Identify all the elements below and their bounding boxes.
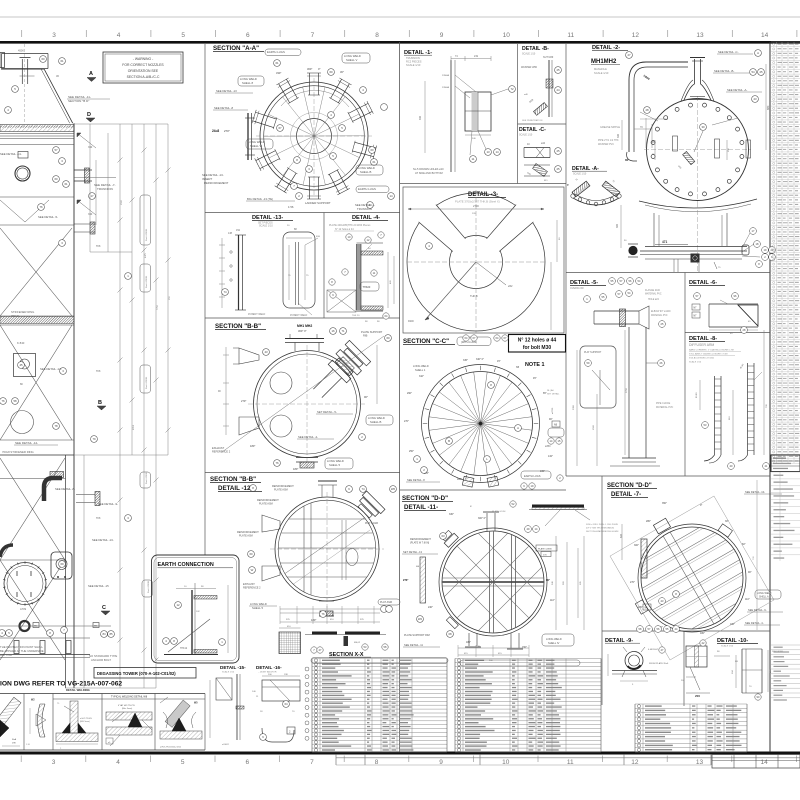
svg-text:DETAIL -C-: DETAIL -C- (519, 127, 546, 133)
section A-A leader notes (202, 49, 389, 211)
typical welding details table (0, 694, 205, 751)
section B-B bottom stub (293, 458, 318, 472)
svg-text:WASHER W60: WASHER W60 (521, 66, 538, 69)
svg-text:SEE DETAIL -C-: SEE DETAIL -C- (718, 50, 739, 54)
svg-text:TK8: TK8 (96, 370, 101, 373)
detail 11 rim stubs (420, 512, 523, 649)
svg-text:DETAIL -11-: DETAIL -11- (404, 504, 438, 511)
svg-text:7: 7 (310, 759, 314, 766)
svg-text:60: 60 (370, 148, 374, 152)
sheet outer edge line (0, 16, 800, 18)
svg-text:SECTION A WAX SPACING 600MM: SECTION A WAX SPACING 600MM (586, 530, 619, 533)
svg-text:11: 11 (567, 32, 574, 39)
svg-text:DETAIL -12-: DETAIL -12- (218, 485, 253, 492)
svg-text:270°: 270° (630, 581, 635, 584)
svg-text:58: 58 (13, 399, 17, 403)
svg-text:45 BENT WELD: 45 BENT WELD (248, 313, 266, 316)
svg-text:3: 3 (52, 32, 56, 39)
svg-text:76: 76 (321, 612, 325, 616)
detail 7 tray circle rotated (618, 504, 766, 652)
svg-text:14: 14 (389, 194, 393, 198)
vessel top head and nozzles (0, 44, 48, 124)
detail 1 title (404, 50, 432, 67)
svg-text:69: 69 (60, 562, 64, 566)
svg-text:4500: 4500 (18, 49, 24, 53)
svg-text:160°: 160° (730, 623, 735, 626)
svg-text:REINFORCEMENT: REINFORCEMENT (204, 181, 229, 185)
svg-text:SIDE x DRILL WITH 4 .1500 PLAT: SIDE x DRILL WITH 4 .1500 PLATE (586, 523, 619, 526)
svg-text:SEE DETAIL -11: SEE DETAIL -11 (404, 643, 424, 647)
right strip tag block (771, 455, 800, 472)
manhole dims and notes (598, 50, 770, 171)
svg-text:ORIENTATION SEE: ORIENTATION SEE (128, 69, 159, 73)
svg-text:STCL ARM 2" DIA ENCLOSURE 17.5: STCL ARM 2" DIA ENCLOSURE 17.5M (689, 353, 728, 356)
svg-text:SEE DETAIL -9-: SEE DETAIL -9- (748, 608, 767, 612)
svg-text:80: 80 (625, 158, 629, 162)
svg-text:4475: 4475 (145, 252, 147, 258)
svg-text:9: 9 (440, 32, 444, 39)
svg-text:BIG DETAIL -13 (TE): BIG DETAIL -13 (TE) (247, 197, 273, 201)
anchor bolt detail ring (0, 621, 111, 631)
svg-text:08: 08 (448, 632, 452, 636)
svg-text:880: 880 (766, 105, 770, 110)
svg-text:SHELL 5: SHELL 5 (252, 606, 264, 610)
detail 13 part left (219, 229, 266, 316)
svg-text:PLATE SUPPORT: PLATE SUPPORT (361, 330, 383, 334)
svg-text:6: 6 (246, 32, 250, 39)
svg-text:SHELL 5: SHELL 5 (329, 463, 341, 467)
detail 12 balloons and notes (237, 485, 400, 618)
svg-text:6: 6 (245, 759, 249, 766)
svg-text:61: 61 (372, 160, 376, 164)
svg-text:a HLT-TN 4N: a HLT-TN 4N (80, 718, 92, 720)
svg-text:300° 0°: 300° 0° (298, 329, 307, 333)
svg-text:SCALE 1/10: SCALE 1/10 (594, 71, 609, 75)
svg-text:700x8 STIFFENER RING: 700x8 STIFFENER RING (2, 450, 34, 454)
svg-text:ANCHOR BOLT: ANCHOR BOLT (91, 658, 111, 662)
svg-text:61: 61 (275, 61, 279, 65)
svg-text:78: 78 (54, 424, 58, 428)
svg-text:330°: 330° (449, 513, 454, 516)
bottom fold marks and title strip (336, 755, 800, 769)
manhole neck side view (654, 203, 727, 272)
svg-text:340° 0°: 340° 0° (476, 358, 484, 361)
skirt pipe elbow upper (44, 472, 64, 502)
svg-text:(Min. 5mm): (Min. 5mm) (122, 708, 132, 710)
svg-text:4.0833.H7: 4.0833.H7 (648, 649, 659, 651)
svg-text:W2: W2 (418, 617, 423, 621)
svg-text:330°: 330° (276, 71, 281, 75)
svg-text:SECTION "D-D": SECTION "D-D" (402, 495, 448, 502)
svg-text:SEE DETAIL -15: SEE DETAIL -15 (88, 584, 109, 588)
svg-text:MATERIAL PVC: MATERIAL PVC (645, 293, 662, 296)
svg-text:240°: 240° (428, 606, 433, 609)
stiffener ring labels (2, 310, 58, 454)
svg-text:C: C (102, 605, 106, 611)
skirt manway rounded square (51, 552, 72, 579)
svg-text:290°: 290° (407, 392, 412, 395)
svg-text:(MIL 5mm): (MIL 5mm) (80, 721, 90, 723)
svg-text:1500: 1500 (121, 199, 123, 205)
svg-text:219: 219 (474, 55, 479, 58)
svg-text:SEE DETAIL -12-: SEE DETAIL -12- (40, 367, 62, 371)
svg-text:SEE DETAIL -9-: SEE DETAIL -9- (98, 502, 118, 506)
svg-text:EARTH LUGS: EARTH LUGS (358, 187, 376, 191)
svg-text:132°: 132° (548, 455, 553, 458)
svg-text:MH1 MH2: MH1 MH2 (297, 324, 312, 328)
svg-text:345°: 345° (463, 359, 468, 362)
vessel cone section (1, 69, 73, 123)
svg-text:BOTTOM: BOTTOM (0, 653, 13, 657)
svg-text:SEE DETAIL -14-: SEE DETAIL -14- (0, 152, 22, 156)
svg-text:76: 76 (39, 205, 43, 209)
section C-C rim stubs (462, 476, 498, 487)
section A-A flange rings (256, 78, 372, 196)
section D-D detail 7 titles (607, 483, 657, 498)
view arrows A D B C (86, 71, 110, 615)
svg-text:SET DETAIL -5-: SET DETAIL -5- (317, 410, 337, 414)
svg-text:MH1MH2: MH1MH2 (591, 59, 617, 65)
svg-text:471: 471 (662, 240, 668, 244)
svg-text:SECTION "A-A": SECTION "A-A" (213, 45, 259, 52)
weld detail cell 2 (26, 699, 46, 747)
svg-text:11: 11 (472, 157, 475, 161)
svg-text:230°: 230° (638, 606, 643, 609)
vessel cross bracing X upper (0, 228, 72, 440)
svg-text:RxA: RxA (12, 738, 17, 741)
svg-text:SEE DETAIL -12-: SEE DETAIL -12- (15, 441, 38, 445)
svg-text:SCALE 1/10: SCALE 1/10 (259, 225, 273, 228)
detail 11 bottom dims (403, 634, 574, 662)
svg-text:13: 13 (696, 32, 704, 39)
manhole hinge slots (673, 136, 720, 158)
svg-text:OVERFLOW: OVERFLOW (570, 287, 584, 290)
detail A hinge drawing (567, 178, 621, 206)
weld detail cell 5 (160, 697, 202, 749)
svg-text:152: 152 (236, 229, 241, 232)
svg-text:B: B (448, 439, 450, 443)
detail 12 top stub (318, 481, 337, 497)
svg-text:DETAIL -16-: DETAIL -16- (256, 665, 282, 670)
svg-text:SECTION "C-C": SECTION "C-C" (403, 338, 449, 345)
section A-A ladder bar left (245, 113, 255, 160)
svg-text:LONG WELD: LONG WELD (546, 637, 562, 641)
base anchor bolt ring circle (3, 561, 47, 611)
svg-text:SEE DETAIL -13-: SEE DETAIL -13- (92, 538, 114, 542)
svg-text:PIPE 2"X1 1/2 THK: PIPE 2"X1 1/2 THK (598, 139, 619, 142)
svg-text:12: 12 (632, 32, 640, 39)
earth connection box (152, 555, 240, 663)
svg-text:60: 60 (41, 57, 45, 61)
svg-text:45 BENT WELD: 45 BENT WELD (290, 314, 308, 317)
svg-text:57: 57 (54, 148, 58, 152)
svg-text:SHELL IV: SHELL IV (548, 641, 560, 645)
shell smile arc under manhole (639, 199, 757, 212)
detail 3 title (455, 192, 506, 204)
svg-text:4"LAT HLT-TN 4"N: 4"LAT HLT-TN 4"N (118, 704, 135, 707)
svg-text:85: 85 (109, 632, 113, 636)
bottom border thick line (0, 752, 800, 755)
section A-A radial lines (314, 87, 325, 136)
top border thick line (0, 41, 800, 44)
svg-text:29K: 29K (12, 743, 16, 745)
svg-text:23: 23 (753, 97, 757, 101)
vessel manhole elevation (15, 166, 30, 181)
detail B bolt drawing (522, 60, 561, 122)
svg-text:28: 28 (645, 108, 649, 112)
svg-text:NUT M39: NUT M39 (543, 56, 554, 59)
detail 12 shell circle (270, 492, 384, 608)
svg-text:PLATE ASM: PLATE ASM (259, 503, 273, 506)
section B-B shell circle (248, 345, 366, 468)
skirt access box with circle (14, 354, 36, 387)
svg-text:K 840: K 840 (17, 341, 25, 345)
skirt dashed opening circle (11, 411, 34, 434)
svg-text:3300: 3300 (573, 404, 575, 410)
svg-text:4: 4 (117, 32, 121, 39)
svg-text:SCALE 1/10: SCALE 1/10 (406, 63, 421, 67)
svg-text:SEE DETAIL -A-: SEE DETAIL -A- (727, 88, 747, 92)
svg-text:MANHOLE: MANHOLE (594, 67, 607, 71)
vessel side nozzle stub (74, 168, 116, 183)
svg-text:74: 74 (223, 290, 227, 294)
svg-text:PLATE SUPPORT RIM: PLATE SUPPORT RIM (404, 634, 430, 637)
svg-text:SET DETAIL: SET DETAIL (547, 393, 560, 396)
weld detail cell 4 (106, 704, 152, 746)
svg-text:25: 25 (556, 149, 560, 153)
svg-text:7: 7 (311, 32, 315, 39)
svg-text:SCALE 1/10: SCALE 1/10 (573, 173, 587, 176)
svg-text:180°: 180° (311, 618, 316, 622)
svg-text:300°: 300° (634, 544, 639, 547)
svg-text:DIFFUSER ARM: DIFFUSER ARM (689, 343, 714, 347)
svg-text:Dwt # 28661: Dwt # 28661 (145, 376, 148, 389)
svg-text:0°: 0° (700, 504, 702, 507)
svg-text:SCALE 1/10: SCALE 1/10 (721, 645, 734, 648)
svg-text:14: 14 (760, 759, 768, 766)
weld detail cell 3 (56, 701, 98, 750)
svg-text:PLATE ASM: PLATE ASM (239, 535, 253, 538)
note box holes for bolt (509, 335, 566, 353)
svg-text:54: 54 (751, 70, 755, 74)
packing sample hatch square (279, 626, 301, 654)
svg-text:90°: 90° (364, 395, 368, 399)
detail 10 welded plate part (681, 640, 710, 698)
svg-text:0°: 0° (318, 67, 320, 71)
skirt nozzle stub right (76, 492, 118, 507)
svg-text:SHELL B: SHELL B (360, 170, 372, 174)
detail B title (521, 46, 554, 69)
svg-text:138: 138 (228, 232, 233, 235)
svg-text:SEE DETAIL -5-: SEE DETAIL -5- (38, 215, 58, 219)
right edge vertical dim near border (753, 480, 757, 630)
svg-text:8: 8 (375, 32, 379, 39)
svg-text:24=8: 24=8 (212, 129, 219, 133)
svg-text:60: 60 (386, 336, 390, 340)
svg-text:(PLATE W 7.8XN): (PLATE W 7.8XN) (410, 542, 429, 545)
vessel dimension tags scalloped (140, 195, 153, 597)
svg-text:3/16 ACCESSED 2/3 DIA: 3/16 ACCESSED 2/3 DIA (689, 357, 714, 360)
parts table left outer balloons (305, 667, 309, 740)
svg-text:180°: 180° (250, 444, 255, 448)
detail 12 dims below (280, 606, 380, 624)
svg-text:280°: 280° (646, 520, 651, 523)
svg-text:PLATE 12X80: PLATE 12X80 (538, 548, 552, 551)
svg-text:14: 14 (495, 150, 499, 154)
detail 8 ladder arms (696, 327, 769, 470)
section D-D detail 11 titles (402, 495, 453, 511)
base plate lines (0, 638, 90, 658)
section B-B dims (218, 345, 377, 448)
svg-text:W6: W6 (391, 487, 396, 491)
svg-text:SEE DETAIL -4-: SEE DETAIL -4- (745, 621, 764, 625)
svg-text:250°: 250° (409, 450, 414, 453)
svg-text:SCALE 1/10: SCALE 1/10 (689, 361, 702, 364)
svg-text:SEE DETAIL -13: SEE DETAIL -13 (216, 89, 237, 93)
svg-text:PLAT ASM: PLAT ASM (380, 601, 392, 604)
svg-text:SHELL 8: SHELL 8 (242, 81, 254, 85)
svg-text:80.80: 80.80 (696, 392, 698, 398)
svg-text:THK20: THK20 (363, 286, 371, 289)
detail 12 diagonal stub (355, 491, 385, 521)
manhole flange circle with bolt holes (644, 96, 751, 203)
svg-text:300°: 300° (307, 67, 312, 71)
svg-text:A: A (757, 51, 759, 55)
svg-text:SEE DETAIL -B-: SEE DETAIL -B- (714, 69, 734, 73)
svg-text:79: 79 (92, 437, 96, 441)
section A-A balloons (274, 60, 395, 209)
detail 10 title (717, 638, 758, 648)
svg-text:(OF 2" MIN THK REMOVABLE): (OF 2" MIN THK REMOVABLE) (586, 527, 614, 530)
svg-text:4: 4 (116, 759, 120, 766)
svg-text:SHELL 1: SHELL 1 (415, 368, 426, 372)
warning note box (103, 52, 183, 83)
svg-text:16: 16 (331, 329, 335, 333)
vertical fold line center (399, 42, 401, 752)
svg-text:NL (A6: NL (A6 (547, 389, 555, 392)
svg-text:D: D (87, 112, 91, 118)
svg-text:A709: A709 (20, 607, 27, 611)
svg-text:74: 74 (361, 487, 365, 491)
svg-text:Dwt # 28661: Dwt # 28661 (147, 580, 150, 593)
svg-text:SCALE 1/10: SCALE 1/10 (522, 53, 536, 56)
svg-text:300° 0°: 300° 0° (478, 517, 486, 520)
svg-text:45: 45 (19, 363, 23, 367)
svg-text:EARTH CONNECTION: EARTH CONNECTION (158, 562, 214, 568)
svg-text:235MA: 235MA (442, 74, 449, 77)
svg-text:TK8: TK8 (96, 517, 101, 520)
svg-text:1500: 1500 (593, 424, 595, 430)
svg-text:PIPE CLDCE: PIPE CLDCE (656, 402, 671, 405)
svg-text:NOTE 1: NOTE 1 (525, 362, 544, 368)
detail 11 internal grid (405, 528, 581, 636)
detail 16 title and part (252, 665, 300, 742)
svg-text:MATERIAL PVC: MATERIAL PVC (656, 406, 674, 409)
detail 6 gusset drawing (692, 293, 758, 335)
svg-text:SECTION "B-B": SECTION "B-B" (210, 476, 256, 483)
svg-text:SET DETAIL -13: SET DETAIL -13 (403, 550, 423, 554)
svg-text:110°: 110° (550, 599, 555, 602)
svg-text:WASHER PVC: WASHER PVC (598, 143, 614, 146)
svg-text:DEGASSING TOWER (070-A-102-C01: DEGASSING TOWER (070-A-102-C01/02) (97, 671, 176, 676)
section B-B top flange (285, 324, 324, 351)
svg-text:480: 480 (419, 115, 422, 120)
detail 1 trunnion drawing (413, 55, 515, 175)
vessel shell walls (0, 123, 74, 688)
svg-text:PLATE G10M: PLATE G10M (492, 510, 506, 513)
svg-text:150°: 150° (522, 646, 527, 649)
svg-text:TK8: TK8 (96, 245, 101, 248)
detail 9 pipe clamp (608, 647, 669, 686)
svg-text:60: 60 (329, 70, 333, 74)
svg-text:12: 12 (176, 603, 180, 607)
svg-text:EARTH LUGS: EARTH LUGS (267, 50, 285, 54)
svg-text:REFERENCE 2: REFERENCE 2 (243, 587, 261, 590)
svg-text:7750: 7750 (157, 304, 159, 310)
svg-text:2700: 2700 (473, 204, 479, 208)
svg-text:60°: 60° (742, 543, 746, 546)
svg-text:180°: 180° (466, 641, 471, 644)
bottom ruler numbers (21, 756, 796, 767)
svg-text:3: 3 (52, 759, 56, 766)
svg-text:84: 84 (102, 632, 106, 636)
skirt pipe elbow lower-left (0, 545, 13, 557)
svg-text:71: 71 (341, 329, 345, 333)
vessel dimension lines right (65, 124, 171, 688)
svg-text:270°: 270° (224, 129, 230, 133)
svg-text:17: 17 (90, 194, 94, 198)
svg-text:a HLT-TN min5tin, 6mm: a HLT-TN min5tin, 6mm (160, 746, 181, 749)
detail 5 overflow pipe (573, 289, 674, 466)
svg-text:e: e (567, 183, 569, 187)
svg-text:25: 25 (556, 68, 560, 72)
svg-text:FLANGE 2100: FLANGE 2100 (645, 289, 661, 292)
detail 12 bottom stub (311, 601, 334, 622)
svg-text:DETAIL WELDING: DETAIL WELDING (66, 688, 90, 692)
svg-text:SHELL A: SHELL A (759, 596, 769, 599)
svg-text:RC2 PIECES: RC2 PIECES (406, 60, 422, 64)
svg-text:ø130/2: ø130/2 (222, 744, 230, 746)
svg-text:5: 5 (181, 32, 185, 39)
parts table right (635, 704, 747, 752)
svg-text:W: W (251, 568, 254, 572)
detail 8 title block (689, 336, 741, 364)
svg-text:SEE DETAIL -8-: SEE DETAIL -8- (55, 487, 75, 491)
svg-text:ION DWG REFER TO VG-215A-007-0: ION DWG REFER TO VG-215A-007-062 (0, 681, 122, 688)
svg-text:270°: 270° (241, 399, 246, 403)
detail 11 top beam section (470, 501, 619, 533)
svg-text:15°: 15° (497, 360, 501, 363)
vessel internal distributor (0, 152, 49, 223)
svg-text:ø350: ø350 (545, 445, 551, 448)
section C-C title (403, 337, 491, 346)
detail 13 part right (283, 225, 321, 317)
svg-text:ø44: ø44 (541, 142, 546, 145)
svg-text:N° 12 holes ø 44: N° 12 holes ø 44 (518, 338, 557, 344)
svg-text:LONG WELD: LONG WELD (413, 364, 429, 368)
svg-text:90°: 90° (748, 571, 752, 574)
section B-B internal nozzles (270, 372, 292, 394)
svg-text:LADDER SUPPORT: LADDER SUPPORT (305, 201, 331, 205)
svg-text:SEE DETAIL -8: SEE DETAIL -8 (214, 106, 234, 110)
svg-text:MATERIAL PVC: MATERIAL PVC (651, 314, 668, 317)
detail 7 labels (620, 490, 783, 635)
section X-X beam drawing (305, 632, 388, 654)
section C-C labels (404, 335, 564, 489)
svg-text:1:56: 1:56 (288, 205, 294, 209)
svg-text:30°: 30° (725, 520, 729, 523)
vessel balloons (0, 56, 131, 638)
